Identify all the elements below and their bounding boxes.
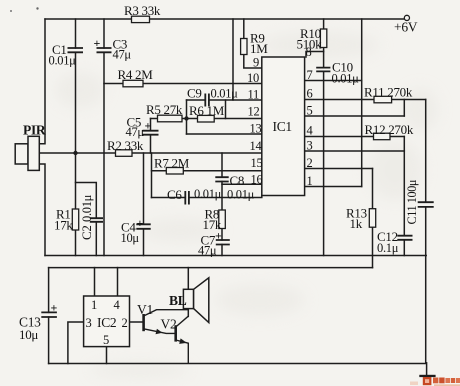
svg-text:C8: C8 — [230, 173, 245, 188]
svg-text:4: 4 — [307, 124, 314, 138]
wire pin 13 line — [187, 133, 262, 135]
capacitor C4 — [136, 224, 150, 229]
resistor R9 — [241, 39, 247, 55]
svg-text:15: 15 — [251, 156, 263, 170]
svg-text:16: 16 — [251, 173, 263, 187]
svg-text:5: 5 — [307, 104, 313, 118]
svg-text:3: 3 — [86, 316, 92, 330]
svg-text:47μ: 47μ — [113, 48, 132, 62]
svg-text:4: 4 — [114, 298, 121, 312]
wire R9 branch from rail to pin 9 — [244, 19, 262, 68]
svg-text:0.01μ: 0.01μ — [332, 72, 360, 86]
resistor R11 — [374, 96, 392, 103]
wire left vertical upper — [39, 19, 45, 144]
junction node PIR output — [73, 151, 77, 155]
terminal +6V — [404, 15, 409, 20]
wire C1 branch from rail — [75, 19, 77, 48]
wire pin 1 line — [305, 186, 362, 188]
svg-text:10μ: 10μ — [121, 231, 140, 245]
wire right outer vertical with C11 — [425, 100, 427, 363]
svg-text:0.01μ: 0.01μ — [211, 87, 239, 101]
wire pin 2 R13 line — [305, 168, 373, 170]
wire R12 to pin 3 hook and C12 vertical to rail — [403, 137, 405, 256]
wire IC2 pin 3 — [68, 322, 84, 364]
wire vertical B from top rail to pin1 — [361, 19, 363, 187]
wire R1 bottom to rail — [75, 230, 77, 256]
svg-text:1: 1 — [91, 298, 97, 312]
svg-text:R6 1M: R6 1M — [189, 103, 225, 118]
wire C10 vertical A down to rail — [323, 71, 325, 255]
svg-text:5: 5 — [103, 333, 109, 347]
svg-text:13: 13 — [250, 122, 262, 136]
wire speaker bottom terminal — [187, 309, 189, 317]
svg-text:V2: V2 — [161, 317, 177, 332]
wire vertical R2 line to C4 to rail — [143, 153, 145, 256]
svg-text:6: 6 — [307, 87, 313, 101]
wire vertical C9 right to pin 12 line — [225, 100, 227, 119]
wire speaker top — [187, 268, 189, 290]
svg-text:+: + — [137, 216, 144, 230]
resistor R10 — [320, 29, 326, 48]
wire ground stub — [426, 363, 428, 376]
resistor R5 — [158, 115, 183, 122]
resistor R4 — [123, 80, 143, 87]
svg-text:+: + — [51, 301, 58, 315]
resistor R8 — [219, 210, 226, 229]
speaker BL — [183, 278, 208, 323]
wire C8 R8 C7 vertical — [221, 153, 223, 256]
junction node R5 R6 C9 pin13 — [184, 116, 188, 120]
svg-text:0.1μ: 0.1μ — [377, 241, 399, 255]
wire vertical R2 line to R7 to C6 — [151, 153, 153, 198]
svg-text:PIR: PIR — [23, 123, 46, 138]
wire left vertical lower — [39, 164, 45, 256]
svg-text:0.01μ: 0.01μ — [227, 188, 255, 202]
resistor R2 — [116, 150, 133, 157]
svg-text:1: 1 — [307, 174, 313, 188]
svg-text:8: 8 — [306, 45, 312, 59]
resistor R3 — [132, 16, 150, 22]
svg-text:C2: C2 — [79, 225, 94, 240]
wire bottom rail — [45, 255, 426, 257]
svg-text:IC2: IC2 — [97, 315, 116, 330]
svg-text:14: 14 — [250, 139, 263, 153]
wire pin 6 R11 line — [305, 99, 426, 101]
op-amp IC1 — [262, 57, 305, 196]
wire lower box left edge with C13 — [48, 268, 50, 364]
svg-text:17k: 17k — [54, 218, 73, 233]
transistor V2 — [176, 316, 189, 363]
svg-text:C11 100μ: C11 100μ — [405, 179, 419, 224]
resistor R13 — [369, 209, 375, 228]
svg-text:0.01μ: 0.01μ — [194, 187, 222, 201]
svg-text:2: 2 — [122, 316, 128, 330]
capacitor C2 — [90, 218, 103, 222]
wire PIR output line to R2 and pin 14 — [39, 152, 261, 154]
ground — [419, 375, 435, 377]
svg-text:7: 7 — [307, 68, 313, 82]
wire vertical from rail to pin 11 line — [232, 19, 234, 100]
svg-text:R11 270k: R11 270k — [364, 85, 413, 100]
wire pin 5 line — [305, 115, 405, 117]
transistor V1 — [144, 310, 189, 335]
svg-text:+: + — [94, 36, 101, 50]
svg-text:R2 33k: R2 33k — [107, 138, 144, 153]
svg-text:2: 2 — [307, 156, 313, 170]
svg-text:BL: BL — [169, 293, 187, 308]
svg-text:1M: 1M — [250, 41, 268, 56]
wire lower box bottom edge — [49, 363, 427, 365]
capacitor C9 — [205, 94, 209, 107]
wire C3 bottom down to rail — [103, 52, 105, 255]
wire IC2 pin 5 — [106, 347, 108, 364]
wire C9 pin 11 line — [187, 99, 262, 101]
capacitor C3 — [97, 48, 112, 52]
svg-text:9: 9 — [253, 56, 259, 70]
wire IC2 pin 4 — [117, 268, 119, 296]
wire pin 16 line — [222, 183, 262, 185]
svg-text:C9: C9 — [187, 86, 202, 101]
capacitor C6 — [185, 191, 189, 205]
capacitor C12 — [397, 236, 412, 240]
resistor R6 — [198, 115, 215, 122]
svg-text:V1: V1 — [137, 302, 153, 317]
wire R7 pin 15 line — [152, 170, 262, 172]
wire vertical C9 left through R5 R6 node to pin 13 line — [186, 100, 188, 134]
wire C5 vertical — [150, 119, 152, 154]
wire R5 R6 pin 12 line — [151, 118, 262, 120]
wire C1 to PIR output node and down to R1 — [75, 52, 77, 209]
svg-text:47μ: 47μ — [126, 125, 145, 139]
wire pin 4 R12 line — [305, 136, 405, 138]
wire top rail +6V — [45, 18, 404, 20]
capacitor C5 — [143, 131, 159, 135]
svg-text:R5 27k: R5 27k — [146, 102, 183, 117]
capacitor C10 — [316, 68, 330, 72]
svg-text:10: 10 — [247, 71, 259, 85]
PIR sensor body — [15, 136, 39, 170]
svg-text:3: 3 — [307, 139, 313, 153]
svg-text:12: 12 — [248, 105, 260, 119]
svg-text:11: 11 — [248, 88, 259, 102]
svg-text:C6: C6 — [167, 187, 182, 202]
wire pin 3 line — [305, 150, 405, 152]
svg-text:R7 2M: R7 2M — [154, 156, 190, 171]
stray scan specks — [10, 10, 12, 12]
capacitor C7 — [216, 240, 230, 245]
wire C2 branch — [76, 183, 97, 219]
resistor R1 — [72, 209, 78, 230]
svg-text:R4 2M: R4 2M — [118, 67, 154, 82]
svg-text:+: + — [145, 119, 152, 133]
wire R4 line pin 10 — [104, 83, 262, 85]
svg-text:R12 270k: R12 270k — [365, 122, 414, 137]
wire IC2 pin 2 to V1 base — [130, 321, 144, 323]
capacitor C8 — [215, 177, 228, 181]
wire C2 bottom to rail — [95, 222, 97, 256]
svg-text:1k: 1k — [350, 216, 363, 231]
wire R13 vertical — [372, 169, 374, 268]
capacitor C13 — [41, 312, 57, 317]
svg-text:+: + — [215, 229, 222, 243]
wire C6 line — [152, 196, 262, 198]
resistor R7 — [166, 168, 183, 175]
svg-text:R3 33k: R3 33k — [124, 3, 161, 18]
op-amp IC2 — [84, 296, 130, 347]
svg-text:10μ: 10μ — [19, 327, 38, 342]
resistor R12 — [374, 133, 391, 140]
wire R11 to pin 5 hook — [403, 100, 405, 117]
wire R10 branch from rail — [323, 19, 325, 68]
wire lower box top edge — [49, 267, 373, 269]
svg-text:+6V: +6V — [394, 20, 418, 35]
capacitor C11 — [418, 202, 434, 207]
svg-text:0.01μ: 0.01μ — [49, 54, 77, 68]
watermark logo — [410, 377, 460, 386]
wire IC2 pin 1 — [94, 268, 96, 296]
wire pin 7 line — [305, 80, 362, 82]
wire C3 branch from rail — [103, 19, 105, 48]
svg-text:47μ: 47μ — [198, 244, 217, 258]
wire pin 8 hook — [306, 52, 324, 58]
svg-text:0.01μ: 0.01μ — [80, 194, 94, 222]
svg-text:IC1: IC1 — [273, 119, 292, 134]
capacitor C1 — [68, 48, 84, 52]
